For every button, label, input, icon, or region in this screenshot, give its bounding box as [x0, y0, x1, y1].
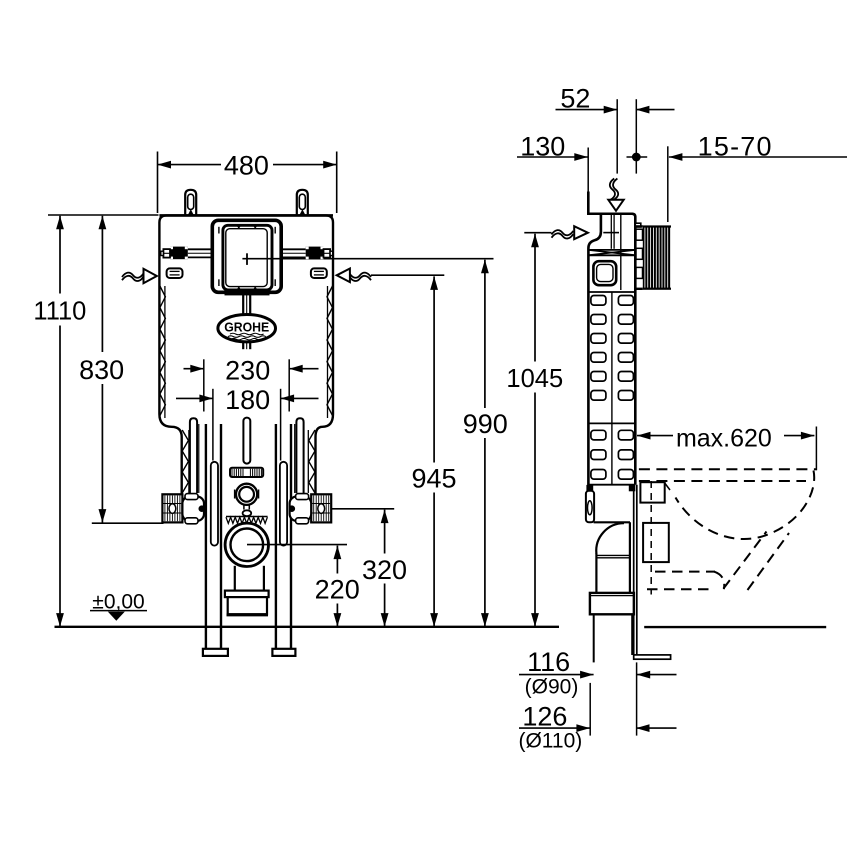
- dim 15-70 line: [669, 156, 847, 158]
- flush plate channel hooks: [218, 227, 220, 234]
- pan fixing block lower: [643, 523, 669, 562]
- side rail bottom edge: [594, 521, 630, 523]
- top extension line left: [48, 214, 159, 216]
- dim 480 line: [158, 164, 337, 166]
- break arrow front right + dim 945 extension: [371, 274, 444, 276]
- supply rod right: [281, 248, 306, 250]
- svg-text:480: 480: [224, 150, 269, 180]
- side target cross line: [603, 232, 619, 234]
- svg-text:220: 220: [315, 574, 360, 604]
- side rail bottom line: [588, 484, 635, 486]
- dim 180 extension lines: [212, 389, 214, 461]
- outlet flange: [225, 591, 269, 598]
- centre cross mark: [246, 253, 248, 265]
- dim 116/126 extension lines: [589, 683, 591, 736]
- extension line to dim 990 (wall axis): [242, 258, 493, 260]
- dim 220 extension line: [247, 544, 347, 546]
- wall bracket left hatched box: [162, 494, 182, 522]
- wall surface extension line: [667, 146, 669, 222]
- outlet pipe below: [593, 614, 595, 662]
- dim 130 extension line: [587, 148, 589, 192]
- side cistern right edge: [632, 214, 635, 485]
- dim 1045 line: [534, 234, 536, 627]
- pan fixing block upper: [640, 482, 664, 502]
- dim max.620: [637, 435, 673, 437]
- flush plate mid frame notches: [237, 225, 242, 229]
- leg right: [275, 424, 277, 649]
- boss clips: [636, 229, 643, 240]
- dim 126: [519, 727, 590, 729]
- side flush pipe upper: [610, 215, 612, 249]
- foot left: [203, 649, 228, 656]
- ground line right: [644, 626, 826, 628]
- dim 130 line: [517, 156, 588, 158]
- GROHE logo stem upper: [242, 293, 244, 315]
- svg-text:320: 320: [362, 555, 407, 585]
- svg-text:945: 945: [411, 464, 456, 494]
- svg-text:230: 230: [225, 355, 270, 385]
- side pipe stub notch: [635, 223, 641, 227]
- svg-text:1110: 1110: [33, 297, 86, 325]
- dim 320 line: [384, 510, 386, 627]
- frame outline front view: [159, 215, 333, 494]
- dim 230 extension lines: [203, 359, 205, 411]
- level mark: [90, 610, 147, 612]
- frame top edge: [159, 214, 333, 217]
- side foot bracket: [586, 491, 594, 523]
- dim 480 extension lines: [157, 152, 159, 214]
- svg-text:990: 990: [463, 409, 508, 439]
- pipe clamp plate: [230, 468, 263, 477]
- dim 830 bottom extension: [92, 522, 164, 524]
- side frame hanger tab: [587, 192, 590, 215]
- dim 830 line: [101, 216, 103, 523]
- outlet duct: [234, 566, 236, 591]
- WC pan dashed bowl: [676, 471, 815, 540]
- water feed break arrow (top): [610, 179, 615, 200]
- serration right upper edge: [327, 286, 333, 416]
- GROHE logo waves: [230, 333, 264, 335]
- break arrow front left: [122, 273, 144, 278]
- flush pipe front: [243, 418, 250, 464]
- leg left slot: [211, 462, 218, 546]
- outlet serrated collar: [226, 516, 268, 518]
- hanger tab left: [185, 190, 196, 216]
- svg-text:max.620: max.620: [676, 424, 772, 452]
- WC pan dashed bottom lines: [655, 571, 715, 573]
- svg-text:(Ø110): (Ø110): [518, 730, 582, 753]
- foot right: [272, 649, 295, 656]
- dim 180 line and arrows: [176, 397, 213, 399]
- GROHE logo stem lower: [242, 342, 244, 349]
- hanger tab right: [297, 190, 308, 216]
- threaded boss: [643, 225, 671, 289]
- WC pan dashed outlet diagonals: [724, 532, 767, 589]
- side rail joint line: [588, 422, 635, 424]
- serration right lower edge: [309, 430, 315, 493]
- wall bracket right arm: [290, 497, 312, 521]
- rod guide right: [296, 418, 303, 493]
- eyelet left: [167, 268, 183, 278]
- outlet circle: [225, 523, 268, 566]
- dim 1110 line: [59, 216, 61, 626]
- dim 52 extension lines: [616, 99, 618, 173]
- svg-text:116: 116: [527, 647, 570, 677]
- dim 52 line: [556, 109, 618, 111]
- GROHE logo oval: [218, 315, 276, 342]
- outlet box: [228, 597, 267, 614]
- svg-text:±0,00: ±0,00: [92, 590, 144, 613]
- leg left: [205, 424, 207, 649]
- outlet collar side: [590, 593, 634, 614]
- dim 220 line: [336, 546, 338, 627]
- flush plate outer frame: [212, 220, 281, 292]
- svg-text:830: 830: [79, 355, 124, 385]
- supply rod left: [188, 248, 213, 250]
- side rail ladder: [588, 291, 635, 293]
- flush plate mid frame: [223, 225, 272, 290]
- side service hatch: [593, 261, 616, 285]
- side cistern left profile: [588, 214, 601, 523]
- wall bracket left arm: [182, 497, 204, 521]
- dim 230 line and arrows: [184, 368, 204, 370]
- leg right slot: [280, 462, 287, 546]
- dim 945 line: [433, 276, 435, 626]
- svg-text:(Ø90): (Ø90): [525, 676, 579, 699]
- flush plate bottom lip: [225, 292, 270, 295]
- svg-text:GROHE: GROHE: [224, 321, 269, 335]
- svg-text:126: 126: [522, 701, 567, 731]
- dim 990 line: [484, 260, 486, 627]
- dim 116: [519, 674, 594, 676]
- outlet bend side: [596, 523, 624, 553]
- eyelet right: [311, 268, 327, 278]
- svg-text:1045: 1045: [506, 365, 563, 393]
- serration left lower edge: [182, 430, 188, 493]
- water inlet circle: [234, 490, 236, 499]
- side clamp bowtie: [590, 249, 635, 251]
- ground line left: [55, 626, 560, 628]
- svg-text:180: 180: [225, 385, 270, 415]
- dim 320 extension line: [332, 508, 395, 510]
- rod guide left: [190, 418, 197, 493]
- supply pipe axis dot: [632, 153, 641, 162]
- wall bracket right hatched box: [311, 494, 331, 522]
- pan bolt axis dashed: [650, 481, 652, 595]
- serration left upper edge: [160, 286, 166, 416]
- WC pan dashed top lines: [639, 468, 816, 470]
- side cistern top edge: [587, 213, 633, 216]
- dim 1045 extension + break arrow to side view: [524, 232, 551, 234]
- wall plate: [633, 485, 635, 655]
